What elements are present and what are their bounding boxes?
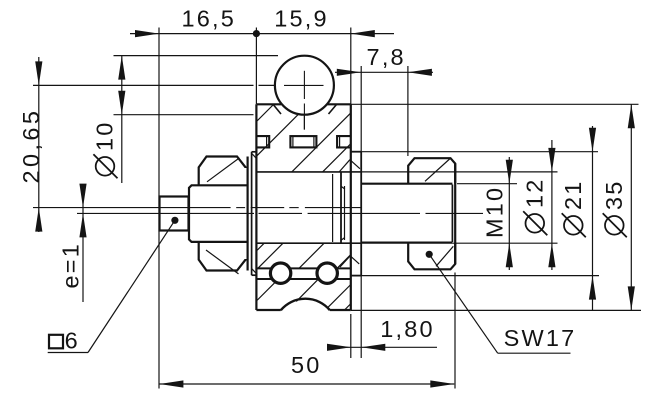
svg-text:1,80: 1,80 (380, 316, 435, 342)
svg-text:SW17: SW17 (504, 325, 577, 351)
svg-text:35: 35 (601, 179, 627, 210)
svg-text:20,65: 20,65 (18, 108, 44, 184)
svg-text:16,5: 16,5 (182, 5, 237, 31)
svg-text:15,9: 15,9 (274, 5, 329, 31)
svg-text:7,8: 7,8 (367, 44, 406, 70)
svg-text:21: 21 (560, 179, 586, 210)
svg-text:M10: M10 (482, 186, 508, 238)
svg-text:12: 12 (522, 177, 548, 208)
svg-text:50: 50 (291, 352, 322, 378)
svg-text:10: 10 (92, 120, 118, 151)
svg-text:e=1: e=1 (58, 242, 84, 288)
svg-text:6: 6 (65, 328, 80, 354)
